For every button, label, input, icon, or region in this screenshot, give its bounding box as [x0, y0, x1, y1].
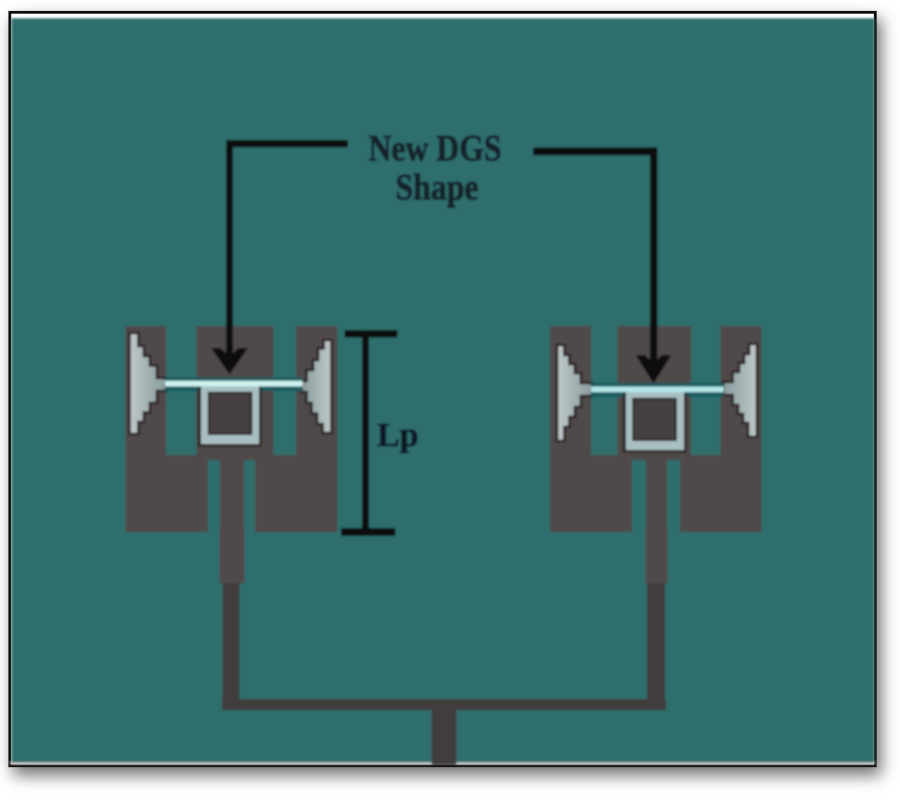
svg-text:New DGS: New DGS	[369, 129, 502, 170]
left element wide feed section	[220, 530, 245, 584]
left leader vertical / arrow shaft	[226, 140, 233, 356]
svg-text:Shape: Shape	[396, 168, 479, 209]
left leader line horizontal	[226, 140, 348, 147]
right element wide feed section	[646, 530, 668, 584]
right leader vertical / arrow shaft	[650, 147, 658, 365]
feed network center stub	[432, 708, 457, 765]
svg-text:Lp: Lp	[377, 417, 419, 454]
right leader line horizontal	[533, 147, 658, 155]
left element DGS ring inner outline	[208, 392, 253, 435]
left element microstrip dark edge	[165, 378, 303, 391]
left element DGS ring outer outline	[198, 383, 262, 447]
Lp dimension top bar	[345, 330, 398, 338]
right element DGS ring silver	[626, 391, 684, 450]
left element ground block	[126, 326, 338, 532]
right element ground block	[550, 326, 762, 532]
Lp dimension bottom bar	[341, 528, 396, 536]
bottom matte silver strip	[10, 761, 875, 764]
Lp dimension vertical line	[362, 336, 369, 530]
left element right bowtie	[302, 340, 332, 433]
right arrowhead	[636, 355, 672, 384]
left element left bowtie	[130, 333, 167, 434]
left element DGS ring inner gray	[210, 394, 250, 433]
feed network horizontal line	[222, 699, 666, 710]
left element narrow feed	[223, 583, 240, 700]
right element microstrip bright line	[591, 387, 724, 393]
right element DGS ring outer outline	[623, 389, 687, 453]
right element DGS ring inner outline	[632, 398, 677, 441]
right element narrow feed	[647, 583, 665, 700]
left arrowhead	[211, 348, 248, 375]
left element microstrip bright line	[165, 381, 303, 387]
right element right bowtie	[723, 344, 757, 437]
left element DGS ring silver	[201, 385, 259, 444]
right element DGS ring inner gray	[635, 400, 675, 439]
right element microstrip dark edge	[591, 383, 724, 397]
right element left bowtie	[557, 345, 592, 441]
